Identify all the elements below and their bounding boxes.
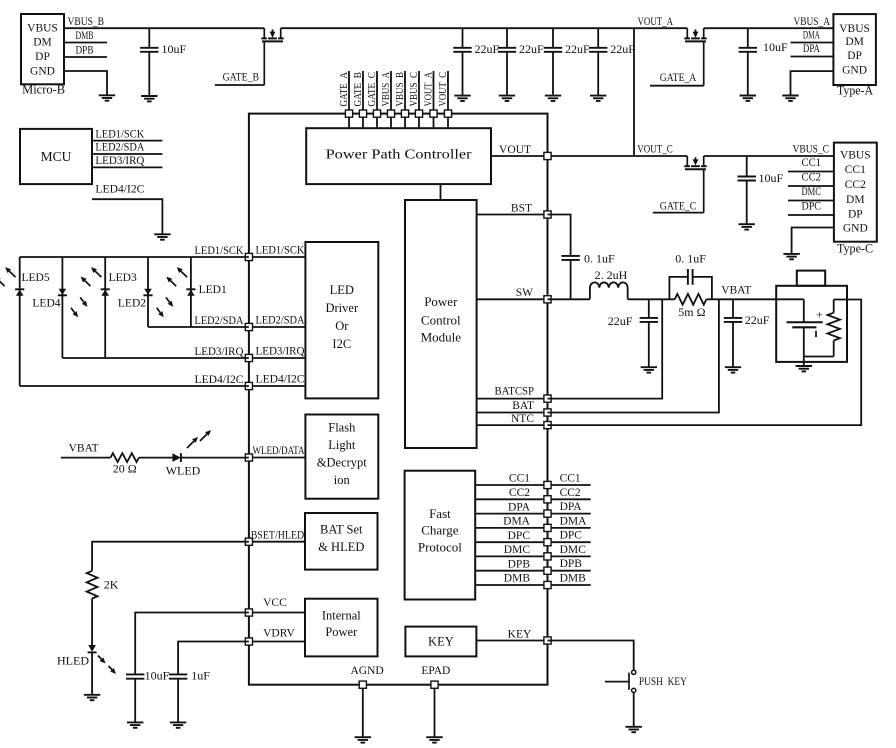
wire BAT from PCM to pin <box>477 400 548 413</box>
wire Type-C GND to ground <box>792 228 834 254</box>
block MCU <box>20 129 92 184</box>
capacitor 22uF (SW output) <box>608 299 658 367</box>
pin VCC (chip left) <box>245 609 252 616</box>
wire VOUT top rail <box>281 27 634 29</box>
svg-text:2K: 2K <box>104 577 119 591</box>
wire GATE_B stub with net label <box>215 71 264 85</box>
wire LED2/SDA pin to LED Driver block <box>249 315 306 327</box>
wire Micro-B GND to ground <box>64 71 107 95</box>
svg-text:BATCSP: BATCSP <box>495 386 535 398</box>
capacitor 22uF (VBAT) <box>724 299 770 367</box>
wire push button to ground <box>633 693 635 727</box>
svg-text:DP: DP <box>35 51 50 63</box>
wire pin to PPC (GATE_C) <box>376 117 378 128</box>
svg-text:GATE_A: GATE_A <box>660 72 697 84</box>
svg-text:VOUT: VOUT <box>499 144 531 156</box>
ground (22uF #3) <box>545 95 561 97</box>
wire pin to PPC (VBUS_C) <box>418 117 420 128</box>
svg-text:22uF: 22uF <box>745 313 770 327</box>
svg-text:DPB: DPB <box>76 45 94 57</box>
connector J2 Type-A <box>833 14 876 98</box>
pin LED1/SCK (chip left) <box>245 253 252 260</box>
svg-text:LED1/SCK: LED1/SCK <box>256 245 306 257</box>
wire LED4/I2C row <box>20 385 249 387</box>
svg-text:NTC: NTC <box>511 413 534 425</box>
svg-text:WLED: WLED <box>166 463 201 477</box>
svg-text:LED4/I2C: LED4/I2C <box>195 374 244 386</box>
svg-text:CC1: CC1 <box>845 164 866 176</box>
wire DMB stub <box>64 30 107 42</box>
svg-text:Flash: Flash <box>328 421 356 435</box>
transistor Q1 load switch (VBUS_A) <box>684 28 706 85</box>
svg-text:VDRV: VDRV <box>263 627 295 639</box>
svg-text:22uF: 22uF <box>610 42 635 56</box>
svg-text:PUSH KEY: PUSH KEY <box>639 676 688 688</box>
wire MCU LED3/IRQ stub <box>92 155 162 167</box>
svg-text:LED3/IRQ: LED3/IRQ <box>195 346 245 358</box>
svg-text:CC2: CC2 <box>845 179 866 191</box>
wire DPC stub to Type-C <box>788 201 834 216</box>
wire GATE_B stub above chip with net label <box>352 71 364 110</box>
wire NTC from PCM to pin <box>477 413 548 425</box>
ground (MCU LED4/I2C) <box>154 233 170 235</box>
wire HLED to ground <box>91 652 93 694</box>
svg-text:LED3/IRQ: LED3/IRQ <box>95 155 145 167</box>
svg-text:LED2/SDA: LED2/SDA <box>95 142 145 154</box>
wire pin to PPC (GATE_A) <box>348 117 350 128</box>
wire Q1 to Type-A VBUS <box>704 27 834 29</box>
svg-text:GATE_B: GATE_B <box>223 71 260 83</box>
svg-text:DMC: DMC <box>802 186 822 198</box>
svg-text:CC1: CC1 <box>802 157 822 169</box>
wire DMC from Fast Charge block to pin <box>475 544 547 556</box>
svg-text:2. 2uH: 2. 2uH <box>595 268 628 282</box>
wire VOUT_C stub above chip with net label <box>437 71 449 110</box>
wire NTC pin connection <box>548 300 862 426</box>
pin EPAD (chip bottom) <box>431 681 438 688</box>
block Internal Power <box>305 599 378 657</box>
svg-text:LED3: LED3 <box>109 272 137 284</box>
svg-text:VCC: VCC <box>263 597 287 609</box>
svg-text:SW: SW <box>516 287 533 299</box>
wire MCU LED2/SDA stub <box>92 142 162 154</box>
pin GATE_A (chip top) <box>345 110 352 117</box>
pin DMA (chip right) <box>544 524 551 531</box>
svg-text:22uF: 22uF <box>475 42 500 56</box>
svg-text:LED3/IRQ: LED3/IRQ <box>256 346 306 358</box>
pin KEY (chip right) <box>544 637 551 644</box>
capacitor 0.1uF (BST) <box>561 251 615 299</box>
wire VBUS_B stub above chip with net label <box>394 71 406 110</box>
LED1 with wire <box>186 257 227 327</box>
svg-text:DPB: DPB <box>560 558 583 570</box>
pin VOUT_C (chip top) <box>444 110 451 117</box>
svg-text:LED4: LED4 <box>32 298 60 310</box>
svg-text:DMC: DMC <box>504 544 531 556</box>
wire CC2 stub outside chip with net label <box>548 487 591 500</box>
thermistor NTC in battery pack <box>828 300 840 357</box>
pin GATE_B (chip top) <box>359 110 366 117</box>
svg-text:Type-C: Type-C <box>837 240 873 255</box>
svg-text:10uF: 10uF <box>145 669 170 683</box>
wire VOUT_A stub above chip with net label <box>422 71 434 110</box>
svg-text:AGND: AGND <box>351 665 384 677</box>
push button PUSH KEY <box>605 670 687 692</box>
svg-text:GATE_A: GATE_A <box>338 72 350 107</box>
wire BST pin to bootstrap cap <box>548 215 571 256</box>
wire EPAD pin to ground <box>421 665 450 737</box>
svg-text:Driver: Driver <box>325 301 358 315</box>
pin BST (chip right) <box>544 211 551 218</box>
battery cell BT1 <box>787 299 824 356</box>
ground (battery) <box>796 365 812 367</box>
svg-text:+: + <box>816 308 823 322</box>
ground (22uF #4) <box>590 95 606 97</box>
LED3 emission arrows <box>81 267 102 286</box>
svg-text:BST: BST <box>511 202 532 214</box>
wire DPA stub <box>791 43 834 56</box>
ground (10uF VCC) <box>127 721 143 723</box>
capacitor 10uF (VCC) <box>126 669 170 723</box>
svg-text:10uF: 10uF <box>763 40 788 54</box>
wire LED3/IRQ row <box>62 357 249 359</box>
svg-text:GND: GND <box>30 66 55 78</box>
svg-text:GATE_C: GATE_C <box>366 72 378 107</box>
wire CC2 from Fast Charge block to pin <box>475 487 547 499</box>
svg-text:WLED/DATA: WLED/DATA <box>253 445 306 457</box>
svg-text:DP: DP <box>847 50 862 62</box>
connector J1 Micro-B <box>21 14 65 97</box>
wire Q3 to Type-C VBUS <box>704 155 834 157</box>
pin LED3/IRQ (chip left) <box>245 354 252 361</box>
svg-text:DMB: DMB <box>560 573 587 585</box>
svg-text:VBUS_B: VBUS_B <box>68 16 105 28</box>
wire BST from PCM to pin <box>477 202 548 214</box>
capacitor 10uF at VBUS_B <box>140 28 186 96</box>
pin DMB (chip right) <box>544 581 551 588</box>
svg-text:Power Path Controller: Power Path Controller <box>326 146 473 161</box>
ground (22uF #2) <box>499 95 515 97</box>
wire SW from PCM to pin <box>477 287 548 299</box>
wire WLED to WLED/DATA pin <box>181 457 249 459</box>
HLED emission arrows <box>98 656 116 675</box>
wire resistor to WLED <box>139 457 173 459</box>
wire pin to PPC (VBUS_A) <box>390 117 392 128</box>
pin SW (chip right) <box>544 296 551 303</box>
svg-text:GND: GND <box>843 223 868 235</box>
wire VCC to 10uF <box>135 613 249 675</box>
svg-text:VBAT: VBAT <box>69 443 99 455</box>
svg-text:VOUT_A: VOUT_A <box>422 72 434 107</box>
pin CC1 (chip right) <box>544 481 551 488</box>
svg-text:CC1: CC1 <box>560 473 581 485</box>
chip U1 outline <box>249 114 548 685</box>
svg-text:LED1: LED1 <box>199 284 227 296</box>
wire VCC pin to Internal Power block <box>249 597 305 613</box>
pin VBUS_B (chip top) <box>401 110 408 117</box>
wire AGND pin to ground <box>351 665 384 737</box>
ground (Type-C) <box>783 253 799 255</box>
svg-text:BSET/HLED: BSET/HLED <box>251 529 305 541</box>
svg-text:DMB: DMB <box>76 30 94 42</box>
svg-text:EPAD: EPAD <box>421 665 450 677</box>
resistor 20 Ohm <box>111 453 139 476</box>
svg-text:VBAT: VBAT <box>721 284 751 296</box>
capacitor 0.1uF across sense resistor <box>669 252 712 300</box>
wire LED2/SDA row <box>148 326 249 328</box>
connector J3 Type-C <box>834 143 877 256</box>
svg-text:5m Ω: 5m Ω <box>678 305 705 319</box>
ground (10uF VBUS_B) <box>141 95 157 97</box>
svg-text:VBUS_A: VBUS_A <box>380 72 392 107</box>
wire VOUT_A to Q1 <box>634 27 687 29</box>
svg-text:CC2: CC2 <box>509 487 530 499</box>
ground (22uF VBAT) <box>725 366 741 368</box>
LED1 emission arrows <box>166 267 187 286</box>
wire GATE_A stub with net label <box>650 72 704 86</box>
LED4 with wire <box>32 257 67 358</box>
svg-text:&Decrypt: &Decrypt <box>317 456 368 470</box>
wire DPB stub <box>64 45 107 57</box>
wire LED4/I2C pin to LED Driver block <box>249 374 306 386</box>
block Fast Charge Protocol <box>405 471 476 600</box>
pin BATCSP (chip right) <box>544 395 551 402</box>
wire 2K to HLED <box>91 599 93 646</box>
wire GATE_C stub with net label <box>653 201 704 213</box>
wire VDRV to 1uF <box>178 642 249 675</box>
resistor 2K <box>87 571 119 599</box>
wire DPB stub outside chip with net label <box>548 558 591 571</box>
wire Type-A GND to ground <box>791 71 834 95</box>
svg-text:Module: Module <box>421 330 462 345</box>
pin VDRV (chip left) <box>245 638 252 645</box>
svg-text:DPC: DPC <box>802 201 822 213</box>
svg-text:DMA: DMA <box>560 515 588 527</box>
wire DPC from Fast Charge block to pin <box>475 530 547 542</box>
ground (Micro-B) <box>99 94 115 96</box>
wire KEY pin to push button <box>548 641 634 671</box>
pin BSET/HLED (chip left) <box>245 538 252 545</box>
capacitor 22uF #4 (VOUT) <box>589 28 635 95</box>
block Power Control Module <box>405 200 477 448</box>
LED3 with wire <box>101 257 137 358</box>
svg-text:LED1/SCK: LED1/SCK <box>95 128 145 140</box>
svg-text:LED5: LED5 <box>22 272 50 284</box>
svg-text:VOUT_A: VOUT_A <box>638 16 674 28</box>
svg-text:DM: DM <box>845 36 864 48</box>
wire VBAT to resistor <box>61 457 111 459</box>
wire WLED/DATA pin to Flash block <box>249 445 306 457</box>
wire BSET/HLED pin to resistor 2K <box>92 542 249 571</box>
wire VOUT from PPC to pin <box>491 144 548 156</box>
wire CC1 from Fast Charge block to pin <box>475 473 547 485</box>
wire DMA stub <box>791 30 834 43</box>
svg-text:Micro-B: Micro-B <box>22 82 65 97</box>
pin DPA (chip right) <box>544 510 551 517</box>
pin CC2 (chip right) <box>544 496 551 503</box>
pin VOUT_A (chip top) <box>430 110 437 117</box>
pin LED4/I2C (chip left) <box>245 382 252 389</box>
svg-text:LED2: LED2 <box>118 298 146 310</box>
wire MCU LED1/SCK stub <box>92 128 162 140</box>
wire GATE_A stub above chip with net label <box>338 71 350 110</box>
wire DMB stub outside chip with net label <box>548 573 591 586</box>
wire DMA stub outside chip with net label <box>548 515 591 528</box>
wire DMC stub outside chip with net label <box>548 544 591 557</box>
wire VBAT node to battery <box>706 298 803 300</box>
svg-text:MCU: MCU <box>41 149 72 164</box>
LED5 with wire <box>15 257 50 386</box>
wire CC1 stub to Type-C <box>788 157 834 172</box>
wire DPA from Fast Charge block to pin <box>475 501 547 513</box>
diode WLED <box>166 453 201 477</box>
resistor 5mOhm current sense <box>675 294 707 319</box>
capacitor 10uF at VBUS_C <box>738 156 784 224</box>
svg-text:VBUS_C: VBUS_C <box>408 72 420 107</box>
capacitor 10uF at VBUS_A <box>739 28 788 95</box>
wire VBUS_C stub above chip with net label <box>408 71 420 110</box>
svg-text:VBUS_C: VBUS_C <box>793 144 830 156</box>
ground (10uF VBUS_C) <box>739 223 755 225</box>
svg-text:CC2: CC2 <box>802 172 822 184</box>
svg-text:DP: DP <box>848 209 863 221</box>
pin DPC (chip right) <box>544 539 551 546</box>
svg-text:GATE_C: GATE_C <box>660 201 697 213</box>
block BAT Set & HLED <box>305 513 378 570</box>
svg-text:22uF: 22uF <box>608 314 633 328</box>
LED2 with wire <box>118 257 153 327</box>
pin VBUS_C (chip top) <box>415 110 422 117</box>
svg-text:Light: Light <box>328 438 356 452</box>
pin LED2/SDA (chip left) <box>245 323 252 330</box>
svg-text:GATE_B: GATE_B <box>352 72 364 107</box>
wire CC2 stub to Type-C <box>788 172 834 187</box>
svg-text:I2C: I2C <box>332 337 351 351</box>
WLED emission arrows <box>187 430 211 448</box>
svg-text:DPC: DPC <box>508 530 531 542</box>
wire LED top rail (LED1/SCK) <box>20 256 249 258</box>
LED2 emission arrows <box>157 297 174 317</box>
svg-text:DMA: DMA <box>503 516 531 528</box>
svg-text:LED4/I2C: LED4/I2C <box>256 374 305 386</box>
svg-text:10uF: 10uF <box>759 171 784 185</box>
pin NTC (chip right) <box>544 422 551 429</box>
wire pin to PPC (VOUT_A) <box>433 117 435 128</box>
pin AGND (chip bottom) <box>359 681 366 688</box>
svg-text:LED1/SCK: LED1/SCK <box>195 245 245 257</box>
svg-text:LED2/SDA: LED2/SDA <box>256 315 306 327</box>
wire LED3/IRQ pin to LED Driver block <box>249 346 306 358</box>
transistor Q2 load switch (VBUS_B) <box>261 28 283 85</box>
wire VBUS_A stub above chip with net label <box>380 71 392 110</box>
transistor Q3 load switch (VBUS_C) <box>684 156 706 213</box>
svg-text:Charge: Charge <box>421 523 459 538</box>
wire DMC stub to Type-C <box>788 186 834 201</box>
wire VBUS_B rail from Micro-B to Q2 <box>64 27 264 29</box>
wire BSET/HLED pin to BAT Set block <box>249 529 305 541</box>
battery pack enclosure <box>776 271 847 362</box>
svg-text:KEY: KEY <box>428 635 454 649</box>
wire KEY from KEY block to pin <box>476 628 547 640</box>
svg-text:ion: ion <box>334 473 351 487</box>
wire GATE_C stub above chip with net label <box>366 71 378 110</box>
wire pin to PPC (GATE_B) <box>362 117 364 128</box>
svg-text:Protocol: Protocol <box>418 540 462 555</box>
svg-text:0. 1uF: 0. 1uF <box>584 251 615 265</box>
svg-text:BAT Set: BAT Set <box>320 523 363 537</box>
capacitor 22uF #3 (VOUT) <box>544 28 590 95</box>
wire DMB from Fast Charge block to pin <box>475 573 547 585</box>
svg-text:LED2/SDA: LED2/SDA <box>195 315 245 327</box>
capacitor 22uF #1 (VOUT) <box>453 28 499 95</box>
svg-text:Internal: Internal <box>322 608 361 622</box>
svg-text:0. 1uF: 0. 1uF <box>675 252 706 266</box>
capacitor 22uF #2 (VOUT) <box>498 28 544 95</box>
wire DPA stub outside chip with net label <box>548 501 591 513</box>
node VOUT junction vertical to VOUT_C <box>633 28 635 156</box>
svg-text:Power: Power <box>424 294 458 309</box>
svg-text:CC2: CC2 <box>560 487 581 499</box>
wire DMA from Fast Charge block to pin <box>475 516 547 528</box>
wire inductor to sense resistor <box>628 298 675 300</box>
svg-text:DPC: DPC <box>560 530 583 542</box>
pin DPB (chip right) <box>544 567 551 574</box>
ground (EPAD) <box>426 736 442 738</box>
inductor 2.2uH <box>590 268 628 299</box>
svg-text:CC1: CC1 <box>509 473 530 485</box>
wire pin to PPC (VBUS_B) <box>404 117 406 128</box>
svg-text:DPA: DPA <box>560 501 583 513</box>
svg-text:DPA: DPA <box>803 43 821 55</box>
svg-text:VBUS_B: VBUS_B <box>394 72 406 107</box>
ground (AGND) <box>355 736 371 738</box>
svg-text:Fast: Fast <box>429 506 451 521</box>
ground (10uF VBUS_A) <box>740 95 756 97</box>
svg-text:Power: Power <box>325 625 358 639</box>
svg-text:DM: DM <box>846 194 865 206</box>
wire pin to PPC (VOUT_C) <box>447 117 449 128</box>
ground (22uF #1) <box>454 95 470 97</box>
wire battery to ground <box>803 357 805 367</box>
block KEY <box>405 627 476 657</box>
svg-text:LED4/I2C: LED4/I2C <box>95 184 144 196</box>
wire LED1/SCK pin to LED Driver block <box>249 245 306 257</box>
svg-text:DMC: DMC <box>560 544 587 556</box>
svg-text:10uF: 10uF <box>162 42 187 56</box>
svg-text:DPA: DPA <box>508 501 531 513</box>
svg-text:BAT: BAT <box>512 400 534 412</box>
diode HLED <box>57 645 97 668</box>
ground (HLED) <box>84 694 100 696</box>
wire DPB from Fast Charge block to pin <box>475 558 547 570</box>
block Power Path Controller <box>306 128 491 184</box>
svg-text:VOUT_C: VOUT_C <box>637 144 673 156</box>
ground (1uF VDRV) <box>170 721 186 723</box>
ground (Type-A) <box>782 95 798 97</box>
LED5 emission arrows <box>0 267 16 286</box>
svg-text:DPB: DPB <box>508 558 531 570</box>
pin VOUT (chip right) <box>544 152 551 159</box>
svg-text:DMB: DMB <box>504 573 531 585</box>
svg-text:DMA: DMA <box>803 30 820 42</box>
svg-text:1uF: 1uF <box>191 669 210 683</box>
svg-text:DM: DM <box>33 37 52 49</box>
wire battery bottom to NTC resistor bottom <box>804 356 834 358</box>
pin WLED/DATA (chip left) <box>245 454 252 461</box>
wire BATCSP from PCM to pin <box>477 386 548 399</box>
wire BATCSP sense tap <box>548 299 663 398</box>
LED4 emission arrows <box>71 297 88 317</box>
